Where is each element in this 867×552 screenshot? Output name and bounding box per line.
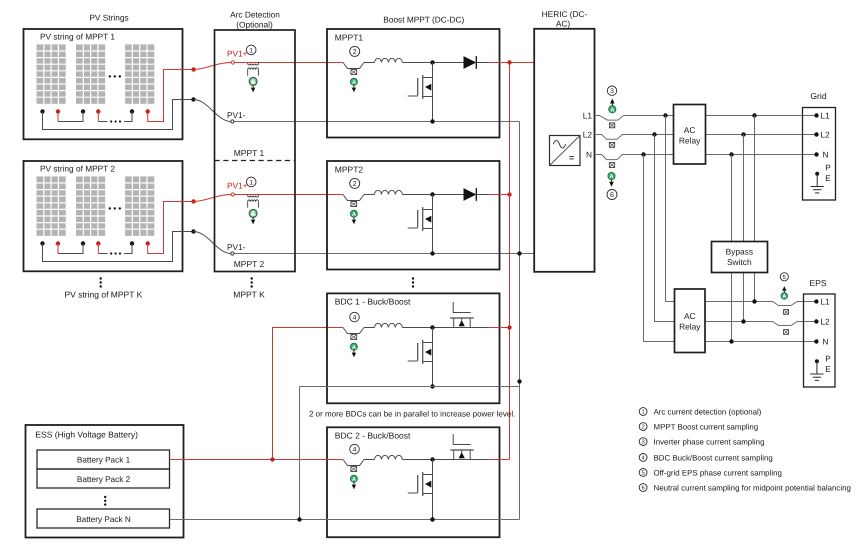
AC relay (EPS side) bbox=[675, 289, 706, 353]
BDC 1 buck/boost box bbox=[327, 293, 500, 403]
svg-text:L2: L2 bbox=[820, 317, 830, 327]
node MPPT2 switch bbox=[430, 192, 434, 196]
svg-text:MPPT2: MPPT2 bbox=[335, 164, 364, 174]
node L1 EPS / bypass bbox=[752, 299, 756, 303]
shunt sensor square N bbox=[609, 163, 614, 168]
DC- gray bus (vertical) bbox=[519, 122, 521, 520]
ellipsis between panels (string 2) bbox=[109, 207, 111, 209]
svg-text:L1: L1 bbox=[583, 110, 593, 120]
svg-text:6: 6 bbox=[610, 191, 614, 199]
annotation circle 5 (off-grid EPS current sampling) bbox=[780, 273, 788, 281]
svg-text:PV string of MPPT 2: PV string of MPPT 2 bbox=[40, 163, 115, 173]
svg-text:A: A bbox=[352, 212, 356, 218]
node L2 / bypass branch bbox=[741, 132, 745, 136]
svg-text:A: A bbox=[352, 80, 356, 86]
node L2 / relay branch bbox=[652, 132, 656, 136]
svg-text:EPS: EPS bbox=[809, 278, 826, 288]
wire N bypass branch bbox=[731, 155, 733, 342]
arc detection CT row 2 : secondary leads bbox=[247, 202, 249, 208]
annotation circle 3 (inverter phase current sampling) bbox=[607, 86, 616, 95]
svg-text:BDC 2 - Buck/Boost: BDC 2 - Buck/Boost bbox=[335, 431, 411, 441]
PV panel 1.1 bbox=[37, 44, 66, 103]
wire shunt to inductor MPPT1 bbox=[364, 62, 375, 64]
node DC+ bus / MPPT1 output bbox=[507, 60, 511, 64]
node string 2 + bbox=[191, 199, 195, 203]
terminal PV1- (row 1) bbox=[231, 120, 234, 123]
AC relay (grid side) bbox=[674, 105, 706, 165]
DC+ red bus (vertical) bbox=[509, 63, 511, 460]
svg-text:MPPT K: MPPT K bbox=[233, 290, 265, 300]
svg-text:Inverter phase current samplin: Inverter phase current sampling bbox=[654, 438, 765, 447]
node L1 / bypass branch bbox=[752, 113, 756, 117]
EPS terminal L1 bbox=[814, 299, 818, 303]
shunt sensor square L2 bbox=[609, 142, 614, 147]
wire inductor to diode MPPT2 bbox=[402, 194, 463, 196]
ellipsis battery packs bbox=[104, 496, 106, 498]
shunt sensor square EPS L1 bbox=[784, 310, 789, 315]
svg-text:Boost MPPT (DC-DC): Boost MPPT (DC-DC) bbox=[383, 15, 464, 25]
wire N HERIC to Grid bbox=[595, 155, 817, 160]
wire PV1- return rail (row 1) bbox=[234, 121, 520, 123]
svg-text:Neutral current sampling for m: Neutral current sampling for midpoint po… bbox=[654, 484, 851, 493]
grid terminal L2 bbox=[814, 132, 818, 136]
wire shunt to inductor BDC1 bbox=[364, 327, 375, 329]
shunt sensor square BDC2 bbox=[351, 467, 357, 472]
buck MOSFET (low side) BDC1 bbox=[432, 328, 434, 387]
grid box bbox=[803, 108, 836, 201]
current sampler A MPPT2 bbox=[350, 210, 357, 217]
svg-text:(Optional): (Optional) bbox=[236, 20, 273, 30]
boost inductor L MPPT1 bbox=[375, 58, 403, 62]
arrow up from L1 sampler bbox=[611, 104, 613, 106]
node DC- bus / HERIC minus bbox=[517, 251, 521, 255]
svg-text:A: A bbox=[352, 477, 356, 483]
PV string box 2 bbox=[24, 161, 183, 271]
svg-text:L1: L1 bbox=[821, 111, 831, 121]
svg-text:Arc current detection (optiona: Arc current detection (optional) bbox=[654, 408, 762, 417]
node MPPT2 source/rail bbox=[430, 251, 434, 255]
node BDC2 source/rail bbox=[430, 517, 434, 521]
svg-text:Grid: Grid bbox=[810, 91, 826, 101]
node battery + / BDC1 branch bbox=[270, 457, 274, 461]
node BDC1 switch bbox=[430, 325, 434, 329]
arc detection CT row 2 : secondary winding bbox=[248, 200, 259, 202]
current shunt BDC1 bbox=[343, 328, 364, 334]
arc detection CT row 2 : primary winding bbox=[248, 196, 259, 198]
ellipsis below MPPT2 box bbox=[412, 277, 414, 279]
arc detection CT row 1 : secondary leads bbox=[247, 70, 249, 76]
svg-text:P: P bbox=[825, 354, 831, 364]
svg-text:ESS (High Voltage Battery): ESS (High Voltage Battery) bbox=[35, 430, 138, 440]
svg-text:PV1+: PV1+ bbox=[227, 180, 248, 190]
arrow below arc sensor row 1 bbox=[252, 85, 254, 87]
node DC- bus / BDC rail bbox=[517, 379, 521, 383]
grid ground bbox=[815, 172, 819, 176]
boost diode D MPPT1 bbox=[464, 56, 477, 69]
wire BDC1 output to DC+ bus (red) bbox=[489, 327, 510, 329]
annotation circle 4 (BDC current sampling, BDC1) bbox=[350, 312, 360, 322]
boost inductor L MPPT2 bbox=[375, 190, 403, 194]
node MPPT1 switch bbox=[430, 60, 434, 64]
svg-text:PV1+: PV1+ bbox=[227, 48, 248, 58]
string 1 negative output wire bbox=[43, 100, 194, 130]
svg-text:Bypass: Bypass bbox=[726, 247, 753, 257]
svg-text:N: N bbox=[823, 150, 829, 160]
arrow below sampler MPPT1 bbox=[353, 85, 355, 87]
wire inductor to switch node BDC2 bbox=[402, 459, 489, 461]
svg-text:Relay: Relay bbox=[679, 135, 701, 145]
svg-text:AC: AC bbox=[684, 311, 696, 321]
annotation circle 4 (BDC current sampling, BDC2) bbox=[350, 444, 360, 454]
wire N branch to EPS relay bbox=[644, 155, 675, 342]
svg-text:Switch: Switch bbox=[727, 257, 752, 267]
wire L1 EPS relay to EPS bbox=[705, 302, 817, 306]
wire MPPT1 output to HERIC + (red) bbox=[489, 62, 534, 64]
wire PV1- return rail (row 2, to HERIC minus) bbox=[234, 253, 534, 255]
node string 1 - bbox=[191, 97, 195, 101]
battery - bottom rail bbox=[170, 519, 520, 521]
svg-text:5: 5 bbox=[641, 470, 644, 476]
wire string 2- to arc detector return bbox=[194, 232, 231, 254]
legend item 6 bbox=[639, 484, 647, 492]
svg-text:MPPT 2: MPPT 2 bbox=[234, 259, 265, 269]
node bottom rail / BDC2 source bbox=[430, 517, 434, 521]
wire shunt to inductor MPPT2 bbox=[364, 194, 375, 196]
arrow below arc sensor row 2 bbox=[252, 217, 254, 219]
series link wire 2 with ellipsis (string 1) bbox=[97, 112, 99, 122]
svg-text:4: 4 bbox=[353, 447, 357, 454]
svg-text:L2: L2 bbox=[583, 129, 593, 139]
bypass switch box bbox=[712, 242, 768, 273]
svg-text:Battery Pack 2: Battery Pack 2 bbox=[77, 475, 131, 484]
svg-text:MPPT Boost current sampling: MPPT Boost current sampling bbox=[654, 423, 759, 432]
arc sensor row 1 (green detector) bbox=[249, 77, 257, 85]
terminal PV1+ (row 2) bbox=[231, 193, 234, 196]
svg-text:1: 1 bbox=[249, 47, 253, 54]
svg-text:L2: L2 bbox=[821, 130, 831, 140]
terminal PV1- (row 2) bbox=[231, 252, 234, 255]
wire diode to output MPPT2 bbox=[476, 194, 489, 196]
legend item 2 bbox=[639, 423, 647, 431]
buck MOSFET (low side) BDC2 bbox=[432, 460, 434, 520]
battery pack 1 bbox=[37, 450, 170, 469]
svg-text:2: 2 bbox=[353, 180, 357, 188]
svg-text:Relay: Relay bbox=[679, 321, 701, 331]
wire L1 bypass branch bbox=[754, 116, 756, 302]
current sampler A MPPT1 bbox=[350, 78, 357, 85]
node string 2 - bbox=[191, 229, 195, 233]
wire L2 branch to EPS relay bbox=[655, 135, 675, 322]
svg-text:MPPT 1: MPPT 1 bbox=[234, 148, 265, 158]
svg-text:4: 4 bbox=[353, 315, 357, 322]
svg-text:N: N bbox=[822, 337, 828, 347]
annotation circle 2 (MPPT boost current sampling, MPPT2) bbox=[350, 178, 360, 188]
legend item 1 bbox=[639, 408, 647, 416]
wire shunt to inductor BDC2 bbox=[364, 459, 375, 461]
svg-text:3: 3 bbox=[641, 439, 644, 446]
EPS box bbox=[804, 294, 836, 387]
inductor L BDC1 bbox=[375, 323, 403, 327]
battery pack 2 bbox=[37, 469, 170, 488]
string 2 negative output wire bbox=[43, 232, 194, 262]
ellipsis below PV strings bbox=[100, 277, 102, 279]
svg-text:5: 5 bbox=[783, 275, 786, 281]
node string 1 + bbox=[191, 67, 195, 71]
wire string 2+ to arc detector input bbox=[194, 195, 232, 202]
current sampler A BDC1 bbox=[350, 343, 357, 350]
wire battery + line to BDC2 (red) bbox=[170, 459, 344, 461]
svg-text:E: E bbox=[825, 364, 831, 374]
wire inductor to switch node BDC1 bbox=[402, 327, 489, 329]
current sampler A BDC2 bbox=[350, 475, 357, 482]
svg-text:PV1-: PV1- bbox=[227, 110, 246, 120]
shunt sensor square MPPT1 bbox=[351, 70, 357, 75]
svg-text:Off-grid EPS phase current sam: Off-grid EPS phase current sampling bbox=[654, 468, 782, 477]
series link wire 1 (string 1) bbox=[57, 112, 59, 122]
wire diode to output MPPT1 bbox=[476, 62, 489, 64]
wire L1 branch to EPS relay bbox=[666, 116, 675, 302]
ellipsis below arc detection box bbox=[251, 277, 253, 279]
shunt sensor square EPS L2 bbox=[784, 330, 789, 335]
node N / relay branch bbox=[641, 152, 645, 156]
wire string 1+ to arc detector input bbox=[194, 63, 232, 70]
EPS ground bbox=[815, 359, 819, 363]
annotation circle 6 (neutral current sampling) bbox=[607, 190, 617, 200]
arrow down from N sampler bbox=[611, 180, 613, 182]
wire inductor to diode MPPT1 bbox=[402, 62, 463, 64]
svg-text:Battery Pack N: Battery Pack N bbox=[76, 515, 131, 524]
current sampler A on L1 bbox=[609, 106, 616, 113]
svg-text:PV1-: PV1- bbox=[227, 242, 246, 252]
PV panel 1.3 bbox=[125, 44, 154, 103]
boost MOSFET Q MPPT1 bbox=[432, 63, 434, 122]
annotation circle 1 (arc current detection, row 1) bbox=[246, 45, 256, 55]
PV panel 2.1 bbox=[37, 176, 66, 235]
svg-text:2: 2 bbox=[641, 424, 644, 431]
node DC+ bus / MPPT2 output bbox=[507, 192, 511, 196]
annotation circle 1 (arc current detection, row 2) bbox=[246, 177, 256, 187]
node L1 / relay branch bbox=[663, 113, 667, 117]
legend item 4 bbox=[639, 454, 647, 462]
node BDC1 source/rail bbox=[430, 384, 434, 388]
dashed divider between MPPT 1 / MPPT 2 sections bbox=[215, 160, 296, 162]
series link wire 1 (string 2) bbox=[57, 244, 59, 254]
wire L2 EPS relay to EPS bbox=[705, 322, 817, 326]
svg-text:PV string of MPPT K: PV string of MPPT K bbox=[65, 290, 143, 300]
svg-text:Arc Detection: Arc Detection bbox=[230, 9, 280, 19]
MPPT2 boost converter box bbox=[327, 161, 500, 270]
node MPPT1 source/rail bbox=[430, 119, 434, 123]
svg-text:P: P bbox=[825, 163, 831, 173]
current shunt BDC2 bbox=[343, 460, 364, 466]
svg-text:2 or more BDCs can be in paral: 2 or more BDCs can be in parallel to inc… bbox=[309, 410, 515, 419]
svg-text:A: A bbox=[610, 174, 614, 180]
grid terminal L1 bbox=[814, 113, 818, 117]
svg-text:6: 6 bbox=[641, 485, 644, 492]
wire MPPT2 output to DC+ bus (red) bbox=[489, 194, 510, 196]
BDC1 negative rail bbox=[300, 386, 520, 388]
arc sensor row 2 (green detector) bbox=[249, 209, 257, 217]
current sampler A on N bbox=[608, 172, 615, 179]
node N EPS / bypass bbox=[729, 339, 733, 343]
PV string box 1 bbox=[24, 29, 183, 139]
arrow below sampler BDC1 bbox=[353, 350, 355, 352]
svg-text:2: 2 bbox=[353, 48, 357, 56]
ESS (High Voltage Battery) box bbox=[26, 425, 184, 538]
svg-text:3: 3 bbox=[610, 88, 614, 95]
node DC+ bus / BDC1 output bbox=[507, 325, 511, 329]
terminal PV1+ (row 1) bbox=[231, 61, 234, 64]
svg-text:1: 1 bbox=[249, 179, 253, 186]
boost MOSFET (high side) BDC2 bbox=[453, 434, 470, 445]
svg-text:PV Strings: PV Strings bbox=[89, 12, 128, 22]
PV panel 1.2 bbox=[76, 44, 105, 103]
wire battery + to BDC1 input (red) bbox=[273, 328, 344, 460]
string 2 positive output wire bbox=[148, 202, 194, 254]
grid terminal N bbox=[814, 152, 818, 156]
shunt sensor square L1 bbox=[609, 123, 614, 128]
node bottom rail / BDC1 return bbox=[297, 517, 301, 521]
svg-text:BDC Buck/Boost current samplin: BDC Buck/Boost current sampling bbox=[654, 453, 773, 462]
svg-text:BDC 1 - Buck/Boost: BDC 1 - Buck/Boost bbox=[335, 297, 411, 307]
svg-text:MPPT1: MPPT1 bbox=[335, 32, 364, 42]
arrow below sampler BDC2 bbox=[353, 482, 355, 484]
wire L2 HERIC to Grid bbox=[595, 135, 817, 140]
DC/AC converter icon U1 bbox=[550, 136, 581, 166]
wire PV1+ main line (row 2) bbox=[234, 194, 343, 196]
boost MOSFET (high side) BDC1 bbox=[453, 302, 470, 313]
wire BDC2 output to DC+ bus (red) bbox=[489, 459, 510, 461]
shunt sensor square BDC1 bbox=[351, 335, 357, 340]
ellipsis between panels (string 1) bbox=[109, 75, 111, 77]
PV panel 2.2 bbox=[76, 176, 105, 235]
panel terminals (string 1) bbox=[40, 109, 44, 113]
arrow up from EPS sampler bbox=[783, 291, 785, 293]
svg-text:1: 1 bbox=[641, 410, 644, 416]
legend item 3 bbox=[639, 438, 647, 446]
current sampler A on EPS L1 bbox=[781, 293, 788, 300]
current shunt MPPT2 bbox=[343, 195, 364, 201]
annotation circle 2 (MPPT boost current sampling, MPPT1) bbox=[350, 46, 360, 56]
arrow below sampler MPPT2 bbox=[353, 217, 355, 219]
BDC 2 buck/boost box bbox=[327, 427, 500, 537]
boost diode D MPPT2 bbox=[464, 188, 477, 201]
shunt sensor square MPPT2 bbox=[351, 202, 357, 207]
wire string 1- to arc detector return bbox=[194, 100, 231, 122]
wire L1 HERIC to Grid bbox=[595, 116, 817, 121]
svg-text:A: A bbox=[782, 294, 786, 300]
EPS terminal L2 bbox=[814, 319, 818, 323]
current shunt MPPT1 bbox=[343, 63, 364, 69]
svg-text:N: N bbox=[586, 149, 592, 159]
svg-text:Battery Pack 1: Battery Pack 1 bbox=[77, 456, 131, 465]
wire BDC1 rail down to battery - bbox=[299, 387, 301, 520]
wire PV1+ main line (row 1) bbox=[234, 62, 343, 64]
node BDC2 switch bbox=[430, 457, 434, 461]
inductor L BDC2 bbox=[375, 455, 403, 459]
EPS terminal N bbox=[814, 339, 818, 343]
HERIC (DC-AC) inverter box bbox=[534, 29, 594, 272]
svg-text:AC: AC bbox=[684, 125, 696, 135]
legend item 5 bbox=[639, 469, 647, 477]
arc detection CT row 1 : primary winding bbox=[248, 64, 259, 66]
node N / bypass branch bbox=[729, 152, 733, 156]
panel terminals (string 2) bbox=[40, 241, 44, 245]
svg-text:AC): AC) bbox=[556, 19, 571, 29]
node L2 EPS / bypass bbox=[741, 319, 745, 323]
svg-text:A: A bbox=[610, 107, 614, 113]
battery pack N bbox=[37, 509, 170, 528]
svg-text:L1: L1 bbox=[820, 297, 830, 307]
series link wire 2 with ellipsis (string 2) bbox=[97, 244, 99, 254]
svg-text:A: A bbox=[352, 345, 356, 351]
wire L2 bypass branch bbox=[743, 135, 745, 322]
wire N EPS relay to EPS bbox=[705, 341, 817, 343]
boost MOSFET Q MPPT2 bbox=[432, 195, 434, 254]
svg-text:E: E bbox=[825, 173, 831, 183]
arc detection CT row 1 : secondary winding bbox=[248, 68, 259, 70]
string 1 positive output wire bbox=[148, 70, 194, 122]
MPPT1 boost converter box bbox=[327, 29, 500, 138]
PV panel 2.3 bbox=[125, 176, 154, 235]
svg-text:PV string of MPPT 1: PV string of MPPT 1 bbox=[40, 31, 115, 41]
arc detection box bbox=[215, 30, 296, 272]
